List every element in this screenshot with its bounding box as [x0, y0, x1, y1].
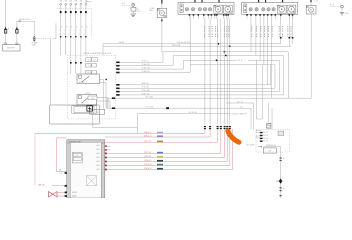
drop T3	[278, 60, 280, 91]
color chip P3	[157, 141, 163, 143]
ground G201	[132, 11, 134, 14]
svg-text:G201: G201	[137, 11, 141, 13]
instrument cluster connector block	[242, 2, 298, 14]
red wire P1	[35, 129, 205, 133]
junction dot W2	[229, 45, 231, 47]
left end W1	[102, 44, 104, 55]
svg-text:42E B 0.5: 42E B 0.5	[144, 156, 151, 158]
fusible link FL1	[5, 27, 7, 30]
color chip P8	[157, 168, 163, 170]
drop B0	[270, 65, 272, 85]
svg-text:4F Lg 0.85: 4F Lg 0.85	[145, 96, 153, 98]
wire row B2 mark	[116, 91, 119, 93]
wire row T1	[116, 62, 119, 64]
tick pair 3	[280, 195, 282, 196]
sensor S1	[331, 6, 339, 8]
svg-text:SOL B 0.85: SOL B 0.85	[189, 112, 197, 114]
svg-text:E16 22P: E16 22P	[72, 192, 77, 194]
wire code labels C2 gauges	[279, 26, 280, 27]
svg-text:7.5: 7.5	[87, 65, 89, 67]
wire motor down	[161, 18, 163, 52]
transducer rows	[260, 132, 263, 133]
wire down to fuse F14	[33, 21, 35, 36]
wire to C200	[17, 20, 34, 22]
pin drop C2 gauge1	[280, 16, 282, 44]
compressor wire down	[280, 147, 282, 198]
gauge 2	[287, 5, 296, 13]
svg-text:7F Bw 0.85: 7F Bw 0.85	[142, 90, 150, 92]
inner red box	[56, 138, 58, 171]
return T4	[116, 87, 275, 89]
dashed box interior fuse panel top	[57, 8, 92, 10]
diamond junction	[279, 179, 283, 184]
svg-text:42B Lg 0.5: 42B Lg 0.5	[144, 136, 151, 138]
row W4	[107, 107, 251, 109]
inline pin connectors	[204, 126, 206, 127]
wire jog	[93, 126, 138, 128]
pin circles	[185, 8, 188, 11]
junction dots upper runs	[224, 51, 226, 53]
relay K1 pins	[99, 78, 103, 80]
upper run T4	[190, 64, 275, 66]
svg-text:G202: G202	[345, 13, 349, 15]
riser T3	[182, 60, 184, 69]
pin node column 6	[85, 36, 87, 38]
PCM right strip	[101, 143, 105, 198]
drop wire V5	[224, 19, 226, 125]
gauge 1	[214, 5, 223, 13]
svg-text:SOL B: SOL B	[238, 60, 243, 62]
svg-text:IG2: IG2	[269, 151, 272, 153]
PCM inner cluster 1	[72, 152, 82, 163]
block C2 bottom pins	[246, 14, 248, 15]
svg-text:1.25: 1.25	[60, 173, 63, 175]
svg-text:7D By 0.85: 7D By 0.85	[142, 71, 150, 73]
PCM pins right red	[105, 145, 107, 147]
drop W5 left	[136, 114, 138, 134]
relay K1	[77, 74, 99, 84]
riser T2	[172, 56, 174, 66]
svg-text:B: B	[12, 29, 13, 31]
PCM left strip	[67, 143, 71, 198]
wire row B3 mark	[116, 94, 119, 96]
relay K2 pins	[97, 97, 109, 99]
tick pair 2	[280, 187, 282, 188]
svg-text:B: B	[66, 27, 67, 29]
color chip P6	[157, 160, 163, 162]
row R1	[226, 102, 254, 104]
wire battery right lead	[16, 21, 18, 43]
red wire inner to pcm	[57, 170, 65, 172]
dashed transducer box	[256, 130, 290, 153]
svg-text:42D Y 0.5: 42D Y 0.5	[144, 152, 151, 154]
row W5	[137, 113, 230, 115]
tick pair 1	[280, 157, 282, 158]
fuse chip row 3	[86, 71, 92, 74]
chip in transducer box	[278, 131, 284, 135]
2-pin element	[180, 4, 183, 13]
svg-text:7B B 1.25: 7B B 1.25	[142, 61, 149, 63]
pin circles	[249, 8, 252, 11]
relay detail sub box	[49, 105, 99, 124]
top stubs	[194, 0, 196, 2]
pin drop C2 gauge2a	[288, 16, 290, 47]
code box	[263, 148, 276, 153]
wire row T3	[116, 68, 119, 70]
plus box	[87, 106, 93, 112]
svg-text:PCM E16 C 22P: PCM E16 C 22P	[69, 142, 81, 144]
red wire valve bottom	[57, 195, 65, 197]
gauge 2	[224, 5, 233, 13]
ring terminal circle	[132, 3, 135, 6]
pin node column 2	[65, 36, 67, 38]
orange highlight marker	[228, 131, 239, 142]
svg-text:7C Bw 0.85: 7C Bw 0.85	[142, 68, 150, 70]
color chip P1	[157, 132, 163, 134]
riser T1	[162, 52, 164, 63]
label chip above conn	[88, 96, 97, 100]
vertical bundle	[102, 79, 104, 108]
gauge 1	[277, 5, 286, 13]
fuse columns into box	[70, 55, 72, 62]
junction dot bundle	[105, 79, 107, 81]
wire row T4	[116, 72, 119, 74]
return T3	[116, 91, 279, 93]
svg-text:B: B	[71, 27, 72, 29]
wire left bracket	[55, 23, 57, 38]
instrument cluster connector block	[178, 2, 234, 14]
svg-text:B: B	[61, 27, 62, 29]
red wire P3	[105, 129, 218, 142]
battery terminal right	[16, 43, 18, 45]
red wire P6	[105, 129, 227, 161]
pin node column 5	[80, 36, 82, 38]
wire row T2	[116, 65, 119, 67]
2-pin element	[244, 4, 247, 13]
dashed engine fuse box	[68, 55, 116, 119]
red boundary box left	[34, 133, 36, 186]
wire code labels under C1	[204, 26, 205, 27]
PCM pins left	[65, 172, 67, 174]
drop wire V6	[226, 19, 228, 125]
drop T4	[274, 65, 276, 89]
svg-text:B: B	[76, 27, 77, 29]
drop wire V7	[229, 19, 231, 125]
riser W4 left	[106, 98, 108, 108]
pin drop C2 gauge2b	[292, 16, 294, 44]
svg-text:C200 B-6 W 5.0: C200 B-6 W 5.0	[19, 19, 31, 21]
color chip P7	[157, 164, 163, 166]
PCM inner cluster 2 X	[87, 176, 97, 186]
dashed wire from F14	[36, 37, 50, 39]
block C1 bottom pins	[189, 14, 191, 15]
wire code labels under C2	[251, 26, 252, 27]
svg-text:E13: E13	[91, 98, 94, 100]
hatched connector square	[267, 123, 271, 128]
drop T1	[287, 52, 289, 98]
upper run T3	[183, 59, 236, 61]
svg-text:4G Lw 0.85: 4G Lw 0.85	[145, 107, 153, 109]
aux pump P1	[310, 0, 312, 2]
upper run T1	[163, 51, 288, 53]
upper run T2	[173, 55, 283, 57]
noise filter box	[132, 6, 134, 7]
fuse chip row 2	[86, 64, 92, 67]
ground G202	[340, 12, 344, 14]
color chip P4	[157, 152, 163, 154]
PCM box	[67, 140, 105, 198]
red wire P7	[105, 129, 230, 165]
svg-text:B: B	[81, 27, 82, 29]
red valve symbol	[49, 192, 58, 198]
drop wire V2	[209, 19, 211, 125]
return T2	[116, 94, 283, 96]
wire row B1 mark	[116, 88, 119, 90]
battery G1	[3, 45, 21, 52]
fusible link FL2	[16, 27, 18, 30]
block C2 pin drops	[250, 19, 252, 52]
svg-text:S1: S1	[76, 155, 78, 157]
drop wire V1	[204, 19, 206, 125]
PCM red stubs	[105, 145, 110, 147]
corner drops right	[255, 60, 257, 119]
white label chips	[256, 130, 260, 132]
riser T4	[189, 16, 191, 73]
svg-text:7B Bw 0.85: 7B Bw 0.85	[142, 64, 150, 66]
drop R2	[250, 108, 252, 129]
dashed wire to ground point	[122, 4, 130, 6]
red wire P4	[105, 129, 221, 153]
svg-text:B: B	[86, 27, 87, 29]
color chip P2	[157, 135, 163, 137]
pump row W3	[107, 97, 311, 99]
svg-text:7E Br 0.85: 7E Br 0.85	[142, 87, 150, 89]
red wire valve top	[57, 191, 65, 193]
condenser fan motor M1	[161, 0, 163, 4]
wire down to fuse sub box	[49, 38, 51, 105]
dashed bottom seg	[69, 123, 102, 125]
svg-text:42C L 0.5: 42C L 0.5	[144, 141, 151, 143]
svg-text:G 10: G 10	[122, 3, 125, 5]
color chip P5	[157, 156, 163, 158]
top stubs	[258, 0, 260, 2]
fuse chip row 1	[86, 58, 92, 62]
bus wire W2	[103, 45, 291, 47]
pin node column 3	[70, 36, 72, 38]
svg-text:C 305: C 305	[95, 112, 99, 114]
svg-text:P 2: P 2	[137, 9, 139, 11]
red wire P8	[105, 129, 233, 169]
svg-text:B 1: B 1	[283, 188, 285, 190]
pin node column 1	[60, 36, 62, 38]
dashed box interior fuse panel right	[90, 9, 92, 37]
wire pump down long	[310, 14, 312, 98]
red wire P2	[105, 129, 210, 137]
svg-text:BATTERY: BATTERY	[7, 46, 16, 49]
transducer feeds	[268, 103, 270, 123]
wire below conn	[92, 114, 94, 127]
svg-text:B 14: B 14	[315, 1, 318, 3]
drop wire V3	[217, 19, 219, 125]
wire top link column 6	[86, 1, 92, 3]
label chip on W2	[173, 44, 180, 46]
red wire P5	[105, 129, 225, 157]
drop wire V4	[220, 19, 222, 125]
pin node column 4	[75, 36, 77, 38]
drop T2	[282, 56, 284, 95]
bus wire W1	[103, 43, 281, 45]
PCM title	[67, 140, 105, 143]
battery terminal left	[5, 43, 7, 45]
conn chip	[90, 109, 105, 114]
wire battery left lead	[5, 0, 7, 43]
junction dot W1	[218, 43, 220, 45]
node C200 connector circle	[19, 20, 21, 22]
fuse F14	[33, 36, 35, 37]
svg-text:PRESSURE SW: PRESSURE SW	[266, 145, 277, 147]
wire row B0	[116, 84, 271, 86]
svg-text:4B L 0.5: 4B L 0.5	[237, 101, 243, 103]
svg-text:7G Br 1.25: 7G Br 1.25	[142, 93, 150, 95]
